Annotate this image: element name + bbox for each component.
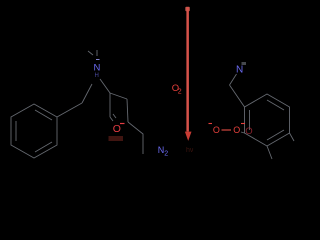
tiny tick above N [96,59,100,61]
bond N down right [100,79,110,93]
bond ring to chain [57,103,82,117]
bond ring bottom down [267,146,272,159]
superscript minus charge [241,123,245,125]
C=O double bond into O [110,114,116,121]
bond down from right vertex [127,99,128,122]
svg-text:2: 2 [178,89,182,96]
small red charge tick above O [120,123,125,125]
right benzene ring [245,94,290,146]
svg-text:O: O [245,126,252,137]
svg-text:hν: hν [186,147,194,154]
tiny dim mark right of N [242,62,247,65]
svg-text:O: O [213,125,220,135]
small red tick above-left of left O [209,123,213,125]
small bond above N [88,50,97,56]
bond ring to carboxylate [241,132,245,133]
O-O single bond line [222,129,232,131]
benzene ring left molecule [11,104,57,158]
svg-text:H: H [95,73,99,79]
bond from right N down-left [230,74,237,85]
benzene inner double bonds [16,110,52,152]
arrowhead at bottom of arrow [185,132,192,141]
bond right from chain vertex [110,93,127,99]
svg-text:N: N [236,65,243,76]
reaction arrow vertical red line [186,7,189,132]
bond chain up to N [82,84,92,103]
svg-text:O: O [113,123,121,135]
svg-text:O: O [233,125,240,135]
bond ring right-bottom stub [290,133,295,141]
bond to right ring [230,85,245,107]
dark red smudge below O [109,136,124,141]
svg-text:N: N [94,63,101,74]
bond vertical to carbonyl [109,93,111,117]
svg-text:2: 2 [164,151,168,158]
bond down-right toward center bottom [128,122,143,154]
bar top cap [185,7,190,12]
